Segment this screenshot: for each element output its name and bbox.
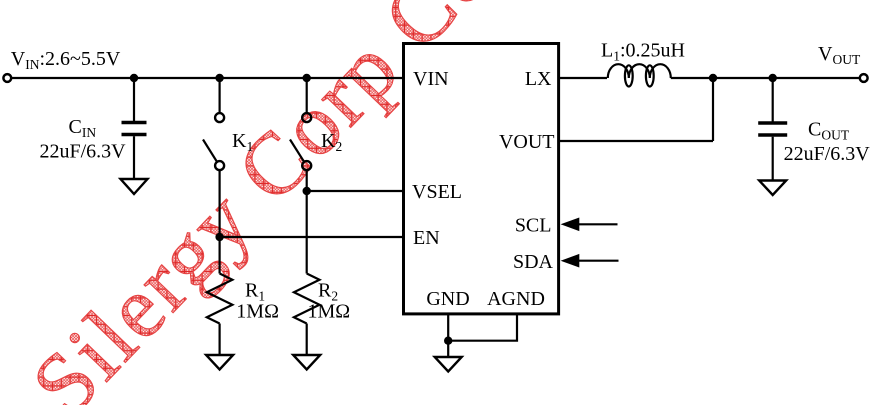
ground <box>435 357 462 372</box>
node junction dot <box>130 74 138 82</box>
svg-text:22uF/6.3V: 22uF/6.3V <box>784 143 871 165</box>
ground <box>293 355 320 370</box>
ground <box>121 179 148 194</box>
ground <box>759 181 786 196</box>
node junction dot <box>709 74 717 82</box>
ground <box>206 355 233 370</box>
wire K1 top <box>219 78 221 113</box>
node VOUT terminal <box>860 74 868 82</box>
wire COUT branch <box>772 78 774 122</box>
node junction dot GND <box>444 337 452 345</box>
capacitor COUT <box>758 121 787 124</box>
svg-text:EN: EN <box>413 227 440 249</box>
svg-text:GND: GND <box>426 288 469 310</box>
svg-text:VIN: VIN <box>413 68 449 90</box>
switch K1 <box>215 113 224 122</box>
switch K2 <box>302 113 311 122</box>
resistor R1 <box>207 274 233 324</box>
node junction dot <box>303 74 311 82</box>
wire main input rail <box>12 77 404 79</box>
wire SDA <box>578 260 619 262</box>
arrowhead SCL <box>561 218 580 232</box>
node junction dot VSEL <box>303 187 311 195</box>
wire EN <box>220 236 404 238</box>
node junction dot <box>215 74 223 82</box>
IC U1 body <box>404 44 559 314</box>
wire VOUT feedback <box>559 140 713 142</box>
resistor R2 <box>294 274 320 324</box>
wire AGND pin <box>448 314 517 341</box>
wire K2 bottom to R2 <box>306 170 308 274</box>
wire GND pin <box>447 314 449 357</box>
svg-text:VSEL: VSEL <box>412 181 462 203</box>
wire LX <box>559 77 607 79</box>
svg-text:SDA: SDA <box>513 251 554 273</box>
node VIN terminal <box>3 74 11 82</box>
wire SCL <box>578 223 618 225</box>
wire output rail <box>671 77 860 79</box>
svg-text:1MΩ: 1MΩ <box>308 301 351 323</box>
arrowhead SDA <box>561 254 580 268</box>
node junction dot <box>769 74 777 82</box>
wire K1 bottom to R1 <box>219 170 221 274</box>
wire K2 top <box>306 78 308 113</box>
wire CIN branch <box>133 78 135 121</box>
node junction dot EN <box>215 233 223 241</box>
wire VSEL <box>307 190 404 192</box>
inductor L1 <box>608 64 671 78</box>
svg-text:AGND: AGND <box>487 288 545 310</box>
watermark "Silergy Corp Co" <box>13 0 509 405</box>
svg-text:22uF/6.3V: 22uF/6.3V <box>40 141 127 163</box>
svg-text:LX: LX <box>525 68 552 90</box>
svg-text:1MΩ: 1MΩ <box>236 301 279 323</box>
capacitor CIN <box>122 121 147 124</box>
svg-text:SCL: SCL <box>515 215 552 237</box>
svg-text:VOUT: VOUT <box>499 131 555 153</box>
